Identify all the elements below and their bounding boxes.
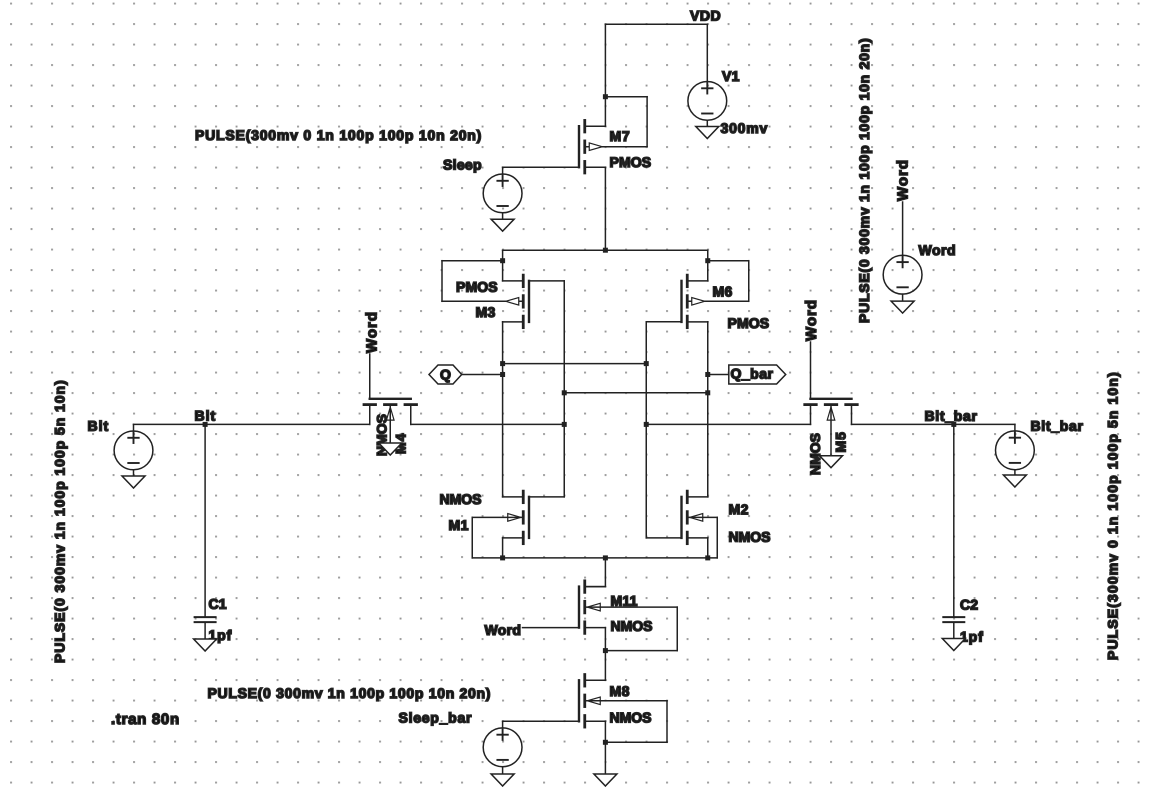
value label PULSE (Bit source, rotated) [52, 379, 68, 663]
junction [500, 361, 505, 366]
junction [644, 422, 649, 427]
wire M2 source down [707, 538, 709, 558]
wire rail to M11 drain [585, 558, 606, 587]
wire M8 source down [604, 721, 606, 774]
junction [603, 648, 608, 653]
svg-text:PULSE(300mv 0 1n 100p 100p 5n: PULSE(300mv 0 1n 100p 100p 5n 10n) [1105, 371, 1121, 660]
junction [705, 555, 710, 560]
wire M6 bulk tie loop [687, 261, 749, 302]
svg-text:M7: M7 [609, 128, 630, 144]
ground (Word source) [891, 301, 914, 313]
wire rail down to M6 source [707, 250, 709, 281]
transistor M1 (NMOS latch left) [503, 491, 529, 544]
wire VDD to M7 drain [604, 24, 606, 126]
label C2 [960, 597, 978, 613]
junction M3 source/bulk tie [500, 258, 505, 263]
label Word (M11 gate) [484, 622, 521, 638]
ground (Bit_bar source) [1003, 475, 1026, 487]
node Q_bar flag [729, 365, 786, 384]
wire cell supply rail [503, 249, 708, 251]
wire Bit_bar source minus lead [1014, 470, 1016, 475]
wire VDD rail top [605, 23, 707, 25]
transistor M3 (PMOS latch left) [503, 275, 529, 328]
ground (Bit source) [122, 476, 145, 488]
svg-text:M5: M5 [833, 431, 849, 452]
capacitor C2 lead [953, 424, 955, 616]
value label PULSE (Word source, rotated) [856, 38, 872, 323]
value label 1pf (C2) [960, 629, 984, 645]
value label NMOS (M5, rotated) [807, 433, 823, 475]
label Sleep [443, 157, 482, 173]
ground (Sleep) [491, 219, 514, 231]
wire M11 bulk tie [585, 607, 678, 651]
svg-text:Bit: Bit [87, 418, 109, 434]
label C1 [208, 596, 226, 612]
wire M7 bulk tie [585, 97, 647, 147]
junction Bit/C1 [203, 422, 208, 427]
ground (Sleep_bar) [491, 774, 514, 786]
value label PULSE (Sleep) [195, 127, 482, 143]
svg-text:Q: Q [440, 366, 451, 382]
wire V1 minus lead [706, 120, 708, 126]
wire Sleep minus lead [502, 213, 504, 219]
voltage source Bit_bar [996, 431, 1035, 470]
svg-text:NMOS: NMOS [439, 491, 481, 507]
label M3 [475, 304, 495, 320]
junction [562, 422, 567, 427]
wire Bit to cell [411, 423, 565, 425]
voltage source Sleep_bar [483, 728, 522, 767]
svg-text:.tran 80n: .tran 80n [111, 711, 180, 728]
junction [603, 740, 608, 745]
junction [705, 390, 710, 395]
label M8 [609, 683, 629, 699]
svg-text:Word: Word [803, 299, 820, 341]
value label 300mv (V1) [720, 120, 768, 136]
wire M11 gate lead [523, 627, 580, 629]
label M1 [448, 517, 468, 533]
label M4 (rotated) [392, 433, 408, 454]
wire Word source plus lead [902, 202, 904, 255]
capacitor C2 [943, 617, 964, 622]
wire M3 gate to column [529, 281, 564, 497]
value label NMOS (M11) [610, 618, 652, 634]
label Word (M5 gate, rotated) [803, 299, 820, 341]
capacitor C1 [195, 617, 216, 622]
svg-text:PULSE(0 300mv 1n 100p 100p 10n: PULSE(0 300mv 1n 100p 100p 10n 20n) [856, 38, 872, 323]
wire Bit source lead [133, 424, 135, 431]
label M11 [610, 593, 637, 609]
label V1 [722, 68, 740, 84]
value label 1pf (C1) [208, 627, 232, 643]
svg-text:M1: M1 [448, 517, 468, 533]
wire Bit_bar line right [852, 423, 1015, 425]
wire Word source minus lead [902, 294, 904, 301]
wire M3 bulk tie loop [442, 261, 523, 302]
svg-text:PULSE(0 300mv 1n 100p 100p 5n: PULSE(0 300mv 1n 100p 100p 5n 10n) [52, 379, 68, 663]
label Bit_bar (node) [924, 408, 977, 424]
voltage source V1 [688, 82, 727, 121]
wire rail down to M3 source [502, 250, 504, 281]
svg-text:M6: M6 [712, 283, 732, 299]
wire Q flag lead [462, 374, 503, 376]
junction rail/M7 [603, 248, 608, 253]
wire M5 bulk to ground [830, 405, 832, 456]
ground (M5 bulk) [820, 456, 843, 468]
svg-text:PMOS: PMOS [456, 279, 498, 295]
svg-text:VDD: VDD [690, 8, 721, 24]
wire Q_bar flag lead [708, 374, 729, 376]
wire M6 gate to column [646, 322, 681, 538]
wire M1 gate to column [529, 496, 564, 498]
svg-text:Bit_bar: Bit_bar [924, 408, 977, 424]
node VDD label [690, 8, 721, 24]
transistor M7 (PMOS header) [579, 120, 605, 173]
svg-text:Sleep_bar: Sleep_bar [398, 710, 472, 726]
ground (M4 bulk) [379, 443, 402, 455]
ground (cell footer) [594, 774, 617, 786]
ground (C2) [942, 639, 965, 651]
voltage source Word [883, 255, 922, 294]
label Sleep_bar [398, 710, 472, 726]
svg-text:NMOS: NMOS [609, 709, 651, 725]
wire M6 drain column (node Q_bar right) [707, 322, 709, 497]
wire M4 bulk to ground [389, 405, 391, 443]
directive .tran 80n [111, 711, 180, 728]
wire M2 gate lead [646, 537, 681, 539]
junction [562, 390, 567, 395]
svg-text:M3: M3 [475, 304, 495, 320]
svg-text:C2: C2 [960, 597, 978, 613]
junction [705, 372, 710, 377]
wire Sleep_bar minus lead [502, 767, 504, 774]
label Bit (source) [87, 418, 109, 434]
svg-text:M11: M11 [610, 593, 637, 609]
svg-text:Word: Word [484, 622, 521, 638]
svg-text:1pf: 1pf [960, 629, 984, 645]
wire C1 to ground [204, 623, 206, 639]
value label PMOS (M7) [609, 154, 651, 170]
value label NMOS (M1) [439, 491, 481, 507]
wire M3 drain column (node Q left) [502, 322, 504, 497]
wire cross-couple Q to M6 gate [503, 363, 647, 365]
junction [500, 372, 505, 377]
value label NMOS (M4, rotated) [373, 414, 389, 456]
value label PMOS (M3) [456, 279, 498, 295]
junction [500, 555, 505, 560]
node Q flag [429, 365, 462, 384]
svg-text:Q_bar: Q_bar [730, 366, 773, 382]
svg-text:Word: Word [918, 242, 956, 258]
junction Bit_bar/C2 [951, 422, 956, 427]
label M7 [609, 128, 630, 144]
transistor M5 (NMOS access right) [805, 399, 858, 425]
label Bit (node) [194, 408, 216, 424]
voltage source Sleep [483, 174, 522, 213]
svg-text:Sleep: Sleep [443, 157, 482, 173]
wire M7 gate to Sleep [503, 167, 579, 174]
label Bit_bar (source) [1030, 418, 1083, 434]
transistor M4 (NMOS access left) [364, 399, 417, 425]
wire M8 bulk tie [585, 701, 667, 743]
label M2 [728, 501, 748, 517]
svg-text:Bit_bar: Bit_bar [1030, 418, 1083, 434]
svg-text:NMOS: NMOS [728, 529, 770, 545]
wire Bit_bar source lead [1014, 424, 1016, 431]
wire Bit line left [134, 423, 370, 425]
value label PMOS (M6) [727, 315, 769, 331]
wire M11 source to M8 drain [585, 628, 606, 681]
ground (C1) [194, 639, 217, 651]
transistor M11 (NMOS word footer) [579, 581, 605, 634]
transistor M8 (NMOS sleep footer) [579, 675, 605, 728]
wire M1 source down [502, 538, 504, 558]
voltage source Bit [114, 431, 153, 470]
junction M6 source/bulk tie [705, 258, 710, 263]
wire cross-couple Q_bar to M3 gate [564, 392, 708, 394]
svg-text:NMOS: NMOS [807, 433, 823, 475]
svg-text:C1: C1 [208, 596, 226, 612]
svg-text:PULSE(300mv 0 1n 100p 100p 10n: PULSE(300mv 0 1n 100p 100p 10n 20n) [195, 127, 482, 143]
wire V1 plus lead [706, 24, 708, 81]
value label NMOS (M8) [609, 709, 651, 725]
wire virtual-ground rail [472, 557, 717, 559]
junction [603, 555, 608, 560]
ground (V1) [696, 127, 719, 139]
svg-text:V1: V1 [722, 68, 740, 84]
svg-text:Bit: Bit [194, 408, 216, 424]
transistor M6 (PMOS latch right) [682, 275, 708, 328]
label Word (net stub, rotated) [895, 159, 912, 201]
wire M1 bulk to rail [472, 517, 523, 558]
transistor M2 (NMOS latch right) [682, 491, 708, 544]
label M6 [712, 283, 732, 299]
svg-text:PMOS: PMOS [609, 154, 651, 170]
label M5 (rotated) [833, 431, 849, 452]
capacitor C1 lead [204, 424, 206, 616]
junction [644, 361, 649, 366]
svg-text:M8: M8 [609, 683, 629, 699]
wire M7 source down to rail [604, 167, 606, 250]
svg-text:Word: Word [363, 311, 380, 353]
wire Word stub to M5 gate [810, 342, 812, 399]
label Word (M4 gate, rotated) [363, 311, 380, 353]
wire M2 bulk to rail [687, 517, 717, 558]
value label PULSE (Sleep_bar) [207, 685, 491, 701]
value label NMOS (M2) [728, 529, 770, 545]
svg-text:NMOS: NMOS [610, 618, 652, 634]
svg-text:PULSE(0 300mv 1n 100p 100p 10n: PULSE(0 300mv 1n 100p 100p 10n 20n) [207, 685, 491, 701]
label Word (source) [918, 242, 956, 258]
svg-text:300mv: 300mv [720, 120, 768, 136]
svg-text:M2: M2 [728, 501, 748, 517]
wire Bit_bar to cell [646, 423, 810, 425]
wire C2 to ground [953, 623, 955, 639]
value label PULSE (Bit_bar source, rotated) [1105, 371, 1121, 660]
junction VDD/M7 [603, 94, 608, 99]
wire M8 gate to Sleep_bar [503, 721, 579, 728]
svg-text:PMOS: PMOS [727, 315, 769, 331]
wire Word stub to M4 gate [369, 354, 371, 399]
svg-text:Word: Word [895, 159, 912, 201]
wire Bit source minus lead [133, 470, 135, 476]
